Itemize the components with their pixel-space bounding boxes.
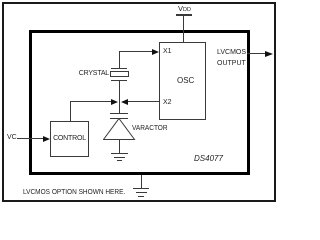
label DS4077 xyxy=(194,154,223,163)
wire control riser to node xyxy=(70,101,112,102)
pin label X1 xyxy=(163,48,172,55)
wire chip to ground xyxy=(141,175,142,188)
pin label X2 xyxy=(163,99,172,106)
node VC input xyxy=(7,134,17,141)
arrowhead output xyxy=(265,51,273,57)
label OSC xyxy=(177,76,194,85)
arrowhead into X1 xyxy=(152,49,159,55)
arrowhead left into node xyxy=(121,99,128,105)
ground (chip) xyxy=(133,188,149,189)
wire crystal bottom to node xyxy=(119,81,120,113)
VDD terminal bar xyxy=(176,14,192,16)
chip boundary box DS4077 xyxy=(29,30,250,175)
wire X2 to node xyxy=(128,101,159,102)
caption note xyxy=(23,189,125,196)
block CONTROL xyxy=(50,121,89,157)
label LVCMOS OUTPUT xyxy=(217,47,246,69)
label CRYSTAL xyxy=(0,70,109,77)
wire varactor to ground xyxy=(119,140,120,153)
crystal Y1 xyxy=(111,68,127,69)
arrowhead into CONTROL xyxy=(43,136,50,142)
outer border frame xyxy=(2,2,276,202)
label CONTROL xyxy=(50,135,89,142)
label VARACTOR xyxy=(132,125,168,132)
arrowhead right into node xyxy=(111,99,118,105)
wire VDD to OSC xyxy=(183,15,184,43)
wire LVCMOS output xyxy=(247,53,265,54)
VDD label xyxy=(178,4,191,13)
varactor D1 xyxy=(110,113,128,114)
wire VC to CONTROL xyxy=(17,138,44,139)
wire crystal top to X1 xyxy=(119,51,152,52)
op block OSC xyxy=(159,42,206,120)
ground (varactor) xyxy=(111,153,128,154)
